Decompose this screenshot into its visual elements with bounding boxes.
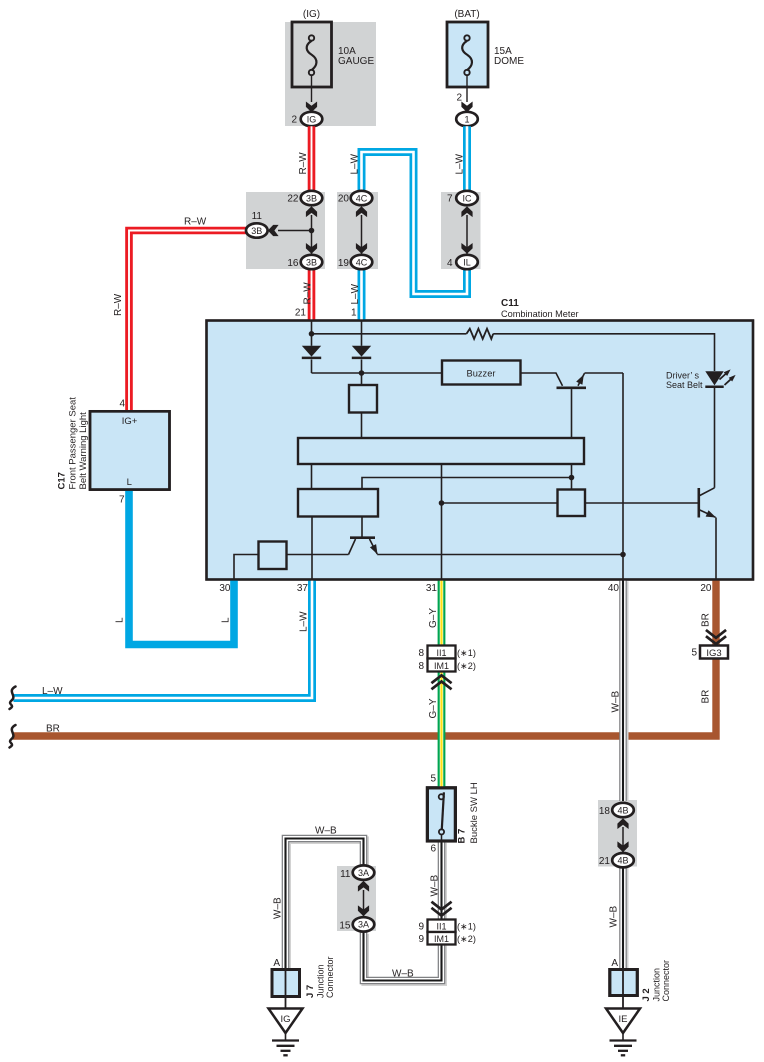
svg-text:W–B: W–B	[273, 897, 284, 919]
wire LED cathode to Q3 collector	[714, 388, 716, 488]
circuit block S2	[558, 490, 586, 517]
diode D2	[352, 346, 371, 357]
svg-text:IM1: IM1	[434, 661, 449, 671]
svg-text:IG+: IG+	[122, 416, 138, 427]
wire L-W connector 19 4C to C11 pin 1	[358, 269, 366, 321]
svg-text:IG3: IG3	[706, 648, 721, 659]
shaded connector block 4B	[598, 800, 637, 867]
svg-text:5: 5	[430, 774, 436, 785]
wire link 3B pins	[311, 215, 313, 254]
svg-text:3B: 3B	[306, 193, 317, 203]
LED emission arrows	[720, 371, 729, 380]
connector oval 16 3B	[301, 255, 323, 269]
svg-text:W–B: W–B	[609, 906, 620, 928]
wire Q3 emitter to pin 20	[715, 518, 717, 580]
svg-text:Connector: Connector	[325, 956, 335, 998]
svg-text:Combination Meter: Combination Meter	[501, 309, 579, 319]
shaded connector block 3A	[337, 866, 376, 931]
svg-text:BR: BR	[701, 613, 712, 627]
svg-text:L–W: L–W	[299, 611, 310, 632]
svg-text:Buzzer: Buzzer	[467, 368, 496, 378]
shaded connector block 4C	[337, 192, 378, 269]
svg-text:Junction: Junction	[316, 964, 326, 998]
combination meter U1 C11 box	[207, 321, 754, 580]
svg-text:3A: 3A	[358, 868, 369, 878]
junction node pin40/Q2 line	[620, 552, 626, 558]
svg-text:L–W: L–W	[42, 686, 63, 697]
transistor Q1 emitter with arrow	[578, 373, 585, 386]
svg-text:1: 1	[464, 114, 469, 124]
transistor Q2 emitter leg with arrow	[370, 539, 378, 554]
connector oval 7 IC	[456, 191, 478, 205]
wire W-B from 4B pin 21 down to J2	[621, 868, 629, 972]
svg-text:W–B: W–B	[430, 875, 441, 897]
svg-text:A: A	[611, 958, 618, 969]
svg-text:A: A	[273, 958, 280, 969]
B7 box border	[427, 788, 455, 841]
junction connector J2 box	[610, 970, 638, 996]
wire C11 pin 21 to diode D1	[311, 321, 313, 346]
connector oval 21 4B	[612, 853, 634, 867]
shaded connector block IC/IL	[441, 192, 481, 269]
C17 box border	[90, 411, 170, 489]
transistor Q1 base bar	[557, 386, 587, 389]
transistor Q2 base bar	[350, 536, 375, 539]
connector IM1 (*2) lower	[428, 932, 456, 945]
wire BR from C11 pin 20 down	[712, 580, 719, 647]
svg-text:(∗1): (∗1)	[457, 648, 476, 658]
circuit block S1	[349, 385, 377, 413]
wire buzzer to Q1	[521, 373, 563, 386]
wire resistor feed line	[312, 333, 467, 335]
arrow down into 16 3B	[306, 243, 317, 254]
svg-text:IE: IE	[619, 1014, 628, 1025]
transistor Q3 emitter leg with arrow	[700, 510, 716, 517]
wire W-B from 3A pin 11 up, left, down to J7	[287, 840, 365, 971]
wire BR from IG3 down, left across page to break	[13, 658, 716, 736]
svg-text:G–Y: G–Y	[428, 608, 439, 628]
connector oval 18 4B	[612, 803, 634, 817]
svg-text:G–Y: G–Y	[428, 698, 439, 718]
arrow down into 21 4B	[617, 841, 628, 852]
arrow up into 22 3B	[306, 206, 317, 217]
arrow up into 11 3A	[358, 881, 369, 892]
connector oval 11 3A	[353, 865, 375, 879]
svg-text:9: 9	[418, 934, 424, 945]
svg-text:(∗2): (∗2)	[457, 661, 476, 671]
buckle switch B7 contacts	[439, 794, 444, 799]
wire W-B from B7 pin 6 down to II1/IM1	[439, 843, 447, 922]
svg-text:8: 8	[418, 661, 424, 672]
arrow up into 7 IC	[461, 206, 472, 217]
svg-text:Connector: Connector	[661, 960, 671, 1002]
wire diode bus to buzzer	[312, 372, 443, 374]
svg-text:R–W: R–W	[113, 293, 124, 316]
svg-text:31: 31	[426, 583, 438, 594]
svg-text:B 7: B 7	[457, 829, 468, 844]
wire through J7 to ground	[285, 970, 287, 1009]
svg-text:IL: IL	[463, 257, 471, 267]
svg-text:1: 1	[351, 308, 357, 319]
svg-text:Front Passenger Seat: Front Passenger Seat	[68, 397, 79, 490]
main circuit block (long)	[298, 438, 584, 464]
svg-text:Junction: Junction	[652, 968, 662, 1002]
wire S3 to Q2	[287, 554, 349, 556]
circuit block S3	[259, 542, 287, 570]
J7 box border	[272, 970, 300, 997]
wire pin31 node to S2	[442, 502, 558, 504]
arrow left into 11 3B	[268, 225, 279, 236]
svg-text:W–B: W–B	[392, 969, 414, 980]
wire main block bottom to node	[571, 464, 573, 478]
connector oval 20 4C	[351, 191, 373, 205]
wire MB bottom to Q2 base	[361, 517, 363, 537]
fuse 15A DOME	[447, 22, 488, 87]
wire Q1 emitter to pin 40 line	[585, 372, 624, 374]
arrow down into 4 IL	[461, 243, 472, 254]
svg-text:J 2: J 2	[641, 988, 652, 1001]
svg-text:9: 9	[418, 922, 424, 933]
svg-text:J 7: J 7	[305, 985, 316, 998]
wire Q1 base to main block	[571, 389, 573, 438]
buckle switch B7 box	[427, 788, 455, 841]
wire R-W connector 16 3B to C11 pin 21	[308, 269, 316, 321]
svg-text:2: 2	[291, 115, 297, 126]
svg-text:7: 7	[119, 495, 125, 506]
svg-text:8: 8	[418, 648, 424, 659]
front passenger seat belt warning light C17 box	[90, 411, 170, 489]
arrow up into 18 4B	[617, 818, 628, 829]
svg-text:R–W: R–W	[184, 217, 207, 228]
svg-text:2: 2	[456, 93, 462, 104]
transistor Q3 base bar	[697, 488, 700, 518]
svg-text:IG: IG	[307, 114, 317, 124]
svg-text:C11: C11	[501, 298, 519, 309]
wire C11 pin 31 vertical	[441, 464, 443, 579]
wire R-W fuse IG to connector 22 3B	[308, 126, 316, 191]
J2 box border	[610, 970, 638, 996]
svg-text:Belt Warning Light: Belt Warning Light	[78, 412, 89, 490]
svg-text:6: 6	[430, 844, 436, 855]
wire branch to 11 3B	[278, 230, 312, 232]
wire resistor to LED anode	[493, 334, 714, 371]
connector oval 2 IG	[301, 112, 323, 126]
svg-text:L: L	[221, 617, 232, 623]
wire L-W connector 4 IL loop to connector 20 4C	[362, 152, 468, 294]
transistor Q2 collector leg	[349, 539, 356, 555]
wire link 3A pins	[363, 890, 365, 916]
shaded relay-block region around 10A GAUGE fuse	[285, 22, 376, 126]
junction connector J7 box	[272, 970, 300, 997]
svg-text:L–W: L–W	[350, 153, 361, 174]
chevrons down BR above IG3	[707, 631, 725, 638]
break symbol L-W	[10, 687, 16, 710]
wire link IC-IL	[466, 215, 468, 254]
wire C11 pin 1 to diode D2	[361, 321, 363, 346]
svg-text:4: 4	[119, 399, 125, 410]
svg-text:37: 37	[297, 583, 309, 594]
svg-text:4C: 4C	[356, 193, 368, 203]
junction node pin31/S2 line	[439, 500, 445, 506]
break symbol BR	[10, 725, 16, 748]
wire C11 pin 40 vertical	[622, 373, 624, 579]
wire C11 pin 30 to S3	[234, 555, 259, 580]
svg-text:16: 16	[287, 258, 299, 269]
svg-text:IG: IG	[280, 1014, 290, 1025]
wire W-B from C11 pin 40 down to 4B	[621, 581, 629, 803]
ground IG	[269, 1009, 303, 1034]
arrow up into 20 4C	[356, 206, 367, 217]
wire S2 to Q3 base	[585, 502, 698, 504]
combination meter C11 border	[207, 321, 754, 580]
connector oval 11 3B	[246, 223, 268, 237]
junction node on 3B link	[309, 228, 315, 234]
wire link 4B pins	[622, 827, 624, 852]
svg-text:(∗1): (∗1)	[457, 921, 476, 931]
arrow into connector IG	[306, 102, 317, 113]
svg-text:22: 22	[287, 194, 299, 205]
svg-text:BR: BR	[46, 724, 60, 735]
svg-text:Buckle SW LH: Buckle SW LH	[469, 782, 480, 843]
svg-text:18: 18	[599, 806, 611, 817]
buckle switch B7 blade	[442, 792, 444, 829]
connector oval 22 3B	[301, 191, 323, 205]
wire G-Y from C11 pin 31 down to II1 connector	[438, 580, 446, 647]
svg-text:7: 7	[447, 194, 453, 205]
svg-text:30: 30	[219, 583, 231, 594]
wire MB top link	[362, 478, 572, 490]
wire S1 to main block	[361, 413, 363, 439]
shaded connector block 3B	[246, 192, 325, 269]
circuit block MB	[298, 489, 378, 517]
svg-text:4C: 4C	[356, 257, 368, 267]
svg-text:R–W: R–W	[303, 282, 314, 305]
wire D1 cathode to bus	[311, 360, 313, 374]
arrow into connector 1	[461, 102, 472, 113]
svg-text:19: 19	[338, 258, 350, 269]
svg-text:C17: C17	[57, 472, 68, 489]
svg-text:20: 20	[700, 583, 712, 594]
svg-text:20: 20	[338, 194, 350, 205]
connector oval 15 3A	[353, 917, 375, 931]
svg-text:11: 11	[252, 211, 263, 222]
svg-text:15: 15	[339, 921, 351, 932]
chevrons down W-B above II1 lower	[433, 903, 451, 910]
connector II1 (*1) upper	[428, 646, 456, 659]
svg-text:3B: 3B	[251, 226, 262, 236]
junction node above S2	[569, 475, 575, 481]
svg-text:4: 4	[447, 258, 453, 269]
svg-text:Driver’ s: Driver’ s	[666, 370, 699, 380]
diode D1	[302, 346, 321, 357]
wire R-W connector 11 3B left and down to C17 pin 4	[129, 231, 247, 412]
svg-text:II1: II1	[436, 648, 446, 658]
svg-text:40: 40	[608, 583, 620, 594]
junction node pin21/resistor line	[309, 331, 315, 337]
wire B7 bottom contact to pin 6	[441, 835, 443, 842]
svg-text:L–W: L–W	[455, 153, 466, 174]
connector oval 19 4C	[351, 255, 373, 269]
svg-text:W–B: W–B	[315, 826, 337, 837]
svg-text:21: 21	[295, 308, 307, 319]
wire W-B from IM1 pin 9 down, left, up to 3A pin 15	[365, 934, 443, 983]
LED D3 driver seat belt light	[705, 371, 723, 385]
svg-text:(IG): (IG)	[303, 9, 320, 20]
svg-text:IM1: IM1	[434, 934, 449, 944]
svg-text:BR: BR	[701, 690, 712, 704]
svg-text:(BAT): (BAT)	[454, 9, 479, 20]
wire link 4C pins	[361, 215, 363, 254]
svg-text:R–W: R–W	[298, 152, 309, 175]
wire bus down to block S1	[361, 373, 363, 385]
fuse 10A GAUGE	[292, 22, 332, 87]
wire L from C17 pin 7 down, right, up to C11 pin 30	[129, 490, 234, 645]
svg-text:L: L	[127, 477, 132, 488]
wire L-W fuse DOME to connector 7 IC	[463, 126, 471, 191]
connector IG3	[700, 646, 728, 659]
svg-text:3B: 3B	[306, 257, 317, 267]
svg-text:IC: IC	[463, 193, 473, 203]
junction node D2/bus	[359, 370, 365, 376]
wire main block to block S3 column	[311, 464, 313, 489]
arrow down into 19 4C	[356, 243, 367, 254]
wire Q2 emitter to pin 40 line	[377, 554, 623, 556]
svg-text:GAUGE: GAUGE	[338, 56, 374, 67]
svg-text:11: 11	[340, 869, 351, 880]
ground IE	[606, 1009, 640, 1034]
svg-text:DOME: DOME	[494, 56, 524, 67]
svg-text:W–B: W–B	[611, 691, 622, 713]
wire C11 pin 37 vertical	[311, 517, 313, 580]
transistor Q3 collector leg	[700, 488, 715, 496]
wire D2 cathode to bus	[361, 360, 363, 374]
svg-text:5: 5	[691, 648, 697, 659]
connector oval 4 IL	[456, 255, 478, 269]
svg-text:(∗2): (∗2)	[457, 934, 476, 944]
connector IM1 (*2) upper	[428, 659, 456, 672]
wire G-Y from IM1 connector down to B7 pin 5	[438, 672, 446, 790]
svg-text:II1: II1	[436, 922, 446, 932]
arrow down into 15 3A	[358, 905, 369, 916]
resistor R1	[467, 329, 494, 339]
buzzer box	[442, 361, 521, 385]
svg-text:L: L	[115, 617, 126, 623]
svg-text:Seat Belt: Seat Belt	[666, 380, 703, 390]
svg-text:21: 21	[599, 856, 611, 867]
wire through J2 to ground	[622, 970, 624, 1009]
svg-text:4B: 4B	[617, 805, 628, 815]
connector II1 (*1) lower	[428, 920, 456, 933]
svg-text:L–W: L–W	[350, 283, 361, 304]
wire L-W from C11 pin 37 down and left to break	[14, 580, 313, 699]
svg-text:3A: 3A	[358, 920, 369, 930]
connector oval 1	[456, 112, 478, 126]
wire node into S2	[571, 478, 573, 490]
chevrons up G-Y	[433, 675, 451, 682]
svg-text:4B: 4B	[617, 856, 628, 866]
